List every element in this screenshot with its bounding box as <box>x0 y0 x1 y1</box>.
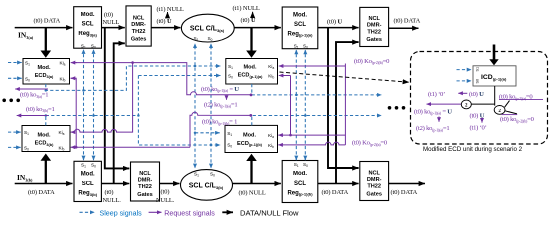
svg-text:S1: S1 <box>476 67 480 72</box>
wire request ECD3 Kib row to corner x188 up to dot <box>71 146 190 148</box>
gate block NCL4: NCL DMR-TH22 Gates <box>360 162 389 201</box>
svg-text:(t1) NULL: (t1) NULL <box>233 5 260 12</box>
svg-text:Mod.: Mod. <box>243 132 256 138</box>
wire NCL3 to ellipse2 <box>160 183 180 185</box>
svg-text:Gates: Gates <box>366 37 382 43</box>
svg-text:Reg(p-1)(a): Reg(p-1)(a) <box>288 31 314 37</box>
arrow into ECD(p-1)(b) bottom <box>246 154 257 161</box>
svg-text:(t0): (t0) <box>105 189 114 196</box>
detector ECD2: Mod. ECD (p-1)(a) <box>226 59 278 85</box>
svg-text:Reg3(b): Reg3(b) <box>78 191 97 197</box>
svg-text:(t0) U: (t0) U <box>241 17 256 24</box>
register R3: Mod. SCL Reg 3(b) <box>74 161 101 201</box>
detector ECD3: Mod. ECD 3(b) <box>22 126 70 152</box>
node sleep junction J9 <box>210 144 213 147</box>
node ellipsis dots left <box>2 99 20 103</box>
wire request ECD1 Kib down to ECD3 Kib row <box>71 77 76 79</box>
node sleep junction J8 <box>210 74 213 77</box>
svg-text:(t0) U: (t0) U <box>470 112 485 119</box>
wire from marker2 up-right to row1 underline <box>505 101 510 108</box>
svg-text:TH22: TH22 <box>138 184 152 190</box>
node junction up to ECD(p-1)(b) <box>250 161 252 184</box>
node request junction K2 <box>75 146 78 149</box>
svg-text:SCL: SCL <box>82 181 94 187</box>
svg-text:(t0) DATA: (t0) DATA <box>34 18 61 25</box>
gate block NCL1: NCL DMR-TH22 Gates <box>126 6 151 46</box>
wire sleep stub into ICD S0 <box>457 80 472 82</box>
svg-text:(t0) ko3(a)=1: (t0) ko3(a)=1 <box>20 92 48 99</box>
svg-text:Reg3(a): Reg3(a) <box>78 31 97 37</box>
svg-text:Sleep signals: Sleep signals <box>100 210 143 218</box>
wire vertical A2: R2 output down to NCL4 lower input <box>328 28 359 168</box>
svg-text:(t0) U: (t0) U <box>327 18 342 25</box>
svg-text:NULL: NULL <box>103 19 120 26</box>
node sleep junction J4 <box>45 114 48 117</box>
svg-text:TH22: TH22 <box>367 184 381 190</box>
gate block NCL3: NCL DMR-TH22 Gates <box>131 162 160 201</box>
wire purple out of marker1 with left arrow <box>427 103 462 105</box>
wire request into ECD2 Kia from vertical x345 <box>279 65 346 67</box>
wire request left back-arrow ko3(a) <box>15 88 48 90</box>
svg-text:NCL: NCL <box>133 16 145 22</box>
svg-text:(t0): (t0) <box>161 189 170 196</box>
arrow purple left rowA <box>458 92 467 94</box>
svg-text:NCL: NCL <box>139 171 151 177</box>
wire sleep into ECD3 S0 from left edge <box>8 146 21 148</box>
wire sleep into ECD1 S1 from left edge <box>8 62 22 64</box>
svg-text:(t0) DATA: (t0) DATA <box>28 189 55 196</box>
svg-text:(t0) U: (t0) U <box>157 18 172 25</box>
svg-text:NULL.: NULL. <box>156 197 175 204</box>
wire NCL2 output <box>389 27 419 29</box>
svg-text:TH22: TH22 <box>367 30 381 36</box>
svg-text:(t0) NULL: (t0) NULL <box>239 189 266 196</box>
svg-text:Mod.: Mod. <box>293 12 307 18</box>
svg-text:Mod.: Mod. <box>37 133 50 139</box>
arrow purple down inset mid <box>481 119 483 123</box>
wire sleep row y115.5 from ECD3 to x138 vertical <box>46 115 139 117</box>
wire sleep vertical R2-S0 to R4-S0 <box>304 52 306 160</box>
svg-text:NULL.: NULL. <box>103 197 122 204</box>
wire IN(3a) input <box>15 27 73 29</box>
svg-text:Mod.: Mod. <box>37 65 50 71</box>
svg-text:NCL: NCL <box>368 16 380 22</box>
svg-text:SCL: SCL <box>294 22 306 28</box>
wire NCL1 to C/L ellipse <box>151 27 180 29</box>
node junction to ECD(p-1)(a) <box>250 28 252 51</box>
svg-text:Request signals: Request signals <box>164 210 215 218</box>
wire vertical A: R1 output down to NCL3 lower input <box>105 28 130 169</box>
wire R2 to NCL2 <box>318 27 359 29</box>
wire sleep from ECD3 top up to row y121 to vertical x138 <box>45 116 47 126</box>
svg-text:NCL: NCL <box>368 170 380 176</box>
node sleep junction J3 <box>137 114 140 117</box>
svg-text:DMR-: DMR- <box>367 23 382 29</box>
svg-text:TH22: TH22 <box>132 29 146 35</box>
svg-text:(t1) ‘0’: (t1) ‘0’ <box>428 91 445 98</box>
gate block NCL2: NCL DMR-TH22 Gates <box>360 7 389 46</box>
wire request ECD1 Kia to junction <box>76 63 251 95</box>
svg-text:Mod.: Mod. <box>81 12 95 18</box>
legend data arrow <box>222 211 233 213</box>
node IN junction up to ECD3(b) <box>45 160 47 183</box>
node sleep junction J2 <box>92 114 95 117</box>
black dashed arrow from ECD2 to inset <box>280 72 410 82</box>
wire sleep vertical R1-S1 to R3-S1 <box>83 52 85 160</box>
wire sleep vertical C/L1-S1 to C/L2-S1 <box>194 46 196 167</box>
node sleep junction J7 <box>194 132 197 135</box>
wire sleep stub into ICD S1 <box>457 69 472 71</box>
wire request vertical x290 to ECD4 Kia row <box>290 76 292 136</box>
node sleep junction J10 <box>295 94 298 97</box>
node request junction K4 <box>249 114 252 117</box>
legend request arrow <box>149 211 162 213</box>
svg-text:Gates: Gates <box>137 192 153 198</box>
svg-text:DMR-: DMR- <box>138 177 153 183</box>
wire ICD output down <box>494 86 496 104</box>
register R4: Mod. SCL Reg (p-1)(b) <box>282 161 318 203</box>
wire sleep from ECD1 bottom to C/L1 and ECD2 row <box>46 66 221 90</box>
svg-text:DMR-: DMR- <box>367 177 382 183</box>
wire request V3 from Kia dot down to ECD3 Kia <box>71 63 133 133</box>
combinational logic ellipse U2: SCL C/L 3(b) <box>181 170 233 201</box>
combinational logic ellipse U1: SCL C/L 3(a) <box>181 14 234 42</box>
node IN junction to ECD3(a) <box>45 28 47 51</box>
svg-text:S0: S0 <box>476 79 480 84</box>
svg-text:DMR-: DMR- <box>131 22 146 28</box>
legend sleep arrow <box>80 211 95 213</box>
wire from marker2 right <box>505 111 517 114</box>
node sleep junction J6 <box>194 65 197 68</box>
svg-text:SCL: SCL <box>294 181 306 187</box>
svg-text:(t0) DATA: (t0) DATA <box>394 17 421 24</box>
svg-text:(t1) ‘0’: (t1) ‘0’ <box>470 125 487 132</box>
wire purple underline row1 <box>499 99 543 101</box>
svg-text:Gates: Gates <box>131 37 147 43</box>
register R1: Mod. SCL Reg 3(a) <box>74 7 102 50</box>
register R2: Mod. SCL Reg (p-1)(a) <box>282 7 318 50</box>
wire R3 to NCL3 <box>101 183 129 185</box>
svg-text:(t0) U: (t0) U <box>469 91 484 98</box>
node sleep junction J5 <box>45 89 48 92</box>
wire IN(3b) input <box>15 183 73 185</box>
arrow into ECD(p-1)(a) top <box>246 51 257 58</box>
inset dashed box <box>411 52 548 145</box>
node request junction K5 <box>289 134 292 137</box>
wire sleep into ECD1 S0 from left edge <box>8 77 22 79</box>
svg-text:Mod.: Mod. <box>81 172 95 178</box>
arrow into ECD3(a) top <box>41 51 52 58</box>
wire sleep into ECD3 S1 from left edge <box>8 131 21 133</box>
arrow purple down inset left <box>438 117 440 122</box>
svg-text:Reg(p-1)(b): Reg(p-1)(b) <box>287 190 313 196</box>
svg-text:SCL: SCL <box>82 21 94 27</box>
wire marker2 connect <box>494 104 496 106</box>
svg-text:Gates: Gates <box>366 191 382 197</box>
wire sleep vertical R2-S1 to R4-S1 <box>295 52 297 160</box>
wire request ECD4 Kia row <box>278 134 345 136</box>
svg-text:(t0) ko3(b)=1: (t0) ko3(b)=1 <box>26 106 55 113</box>
block ICD (p-1)(a) <box>473 66 516 86</box>
wire ellipse2 to R4 <box>232 183 281 185</box>
bus width marker 2 (left) <box>461 100 471 109</box>
node request junction K1 <box>131 61 134 64</box>
wire sleep vertical x138 S0-net <box>138 76 220 146</box>
wire ICD out left to bus marker 1 <box>471 103 495 105</box>
wire R4 to NCL4 <box>318 183 359 185</box>
wire purple overline row2 <box>502 114 518 116</box>
bus width marker 2 (right) <box>494 106 505 115</box>
node ellipsis dots right <box>388 106 406 110</box>
svg-text:DATA/NULL Flow: DATA/NULL Flow <box>240 209 299 218</box>
wire request vertical x345 <box>344 64 346 145</box>
arrow purple down between labels <box>226 96 228 100</box>
thick arrow into ICD from above <box>493 45 496 60</box>
svg-text:Mod.: Mod. <box>243 65 256 71</box>
arrow into ECD3(b) bottom <box>41 154 52 161</box>
wire request left back-arrow ko3(b) <box>17 115 48 117</box>
wire vertical B: R3 output up to NCL1 lower input <box>114 43 125 183</box>
wire R1 to NCL1 <box>102 27 125 29</box>
node request junction K3 <box>250 94 253 97</box>
svg-text:(t0) DATA: (t0) DATA <box>391 189 418 196</box>
wire sleep row y75.5 into ECD2 S0 <box>138 75 220 77</box>
wire sleep from ECD4 top to right arrow <box>252 116 382 126</box>
node sleep junction J1 <box>82 89 85 92</box>
wire request ECD4 Kib row with hops <box>278 142 345 145</box>
wire sleep vertical C/L1-S0 to C/L2-S0 <box>210 46 212 167</box>
wire vertical B2: R4 output up to NCL2 lower input <box>336 42 359 183</box>
wire request into ECD2 Kib from vertical x290 <box>279 75 291 77</box>
wire NCL4 output <box>389 183 425 185</box>
wire ellipse1 to R2 <box>234 27 281 29</box>
detector ECD1: Mod. ECD 3(a) <box>23 59 70 85</box>
svg-text:Mod.: Mod. <box>293 171 307 177</box>
svg-text:Modified ECD unit during scena: Modified ECD unit during scenario 2 <box>423 146 523 153</box>
wire sleep vertical R1-S0 to R3-S0 <box>93 52 95 160</box>
node sleep junction J11 <box>304 114 307 117</box>
svg-text:(t0): (t0) <box>104 12 113 19</box>
detector ECD4: Mod. ECD (p-1)(b) <box>225 125 278 152</box>
wire sleep from ECD2 bottom to right arrow <box>252 84 382 95</box>
svg-text:(t1) NULL: (t1) NULL <box>157 6 184 13</box>
svg-text:(t0) DATA: (t0) DATA <box>322 189 349 196</box>
wire sleep row into ECD4 S1 <box>195 132 220 134</box>
